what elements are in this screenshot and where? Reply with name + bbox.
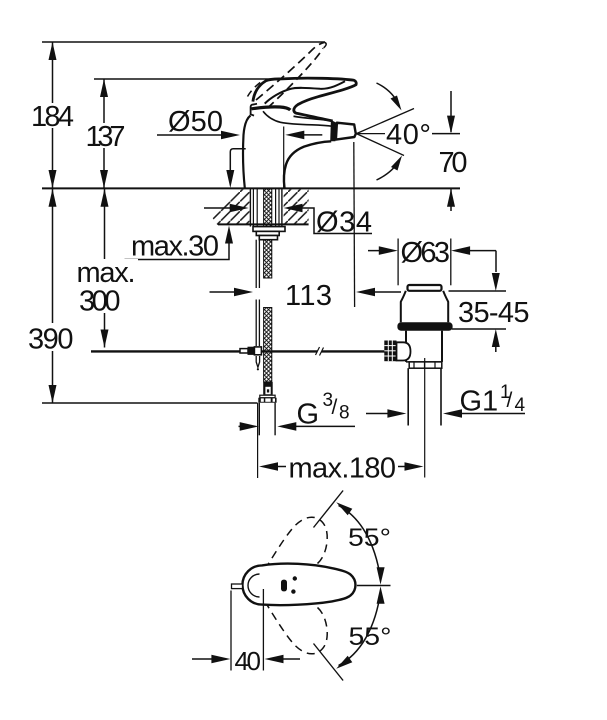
label max. 300 bbox=[72, 259, 138, 313]
knurled knob bbox=[384, 341, 396, 362]
55° lower swing arc bbox=[339, 593, 381, 666]
dashed near pivot bbox=[248, 82, 262, 97]
horizontal pop-up bar bbox=[91, 350, 318, 352]
40 degree rays from aerator bbox=[356, 109, 414, 134]
max.30 leader bbox=[125, 230, 230, 260]
svg-text:Ø63: Ø63 bbox=[401, 237, 451, 269]
Ø63 dimension bbox=[368, 250, 387, 252]
handle front hook bbox=[251, 104, 257, 116]
mounting stack below deck bbox=[253, 227, 285, 232]
label 390 bbox=[25, 323, 77, 351]
35-45 lower arrow bbox=[452, 328, 506, 330]
55° upper ray bbox=[314, 491, 344, 528]
hose nut bbox=[260, 395, 275, 398]
body shoulder line bbox=[263, 111, 333, 126]
dashed raised handle tip bbox=[323, 42, 326, 48]
svg-text:184: 184 bbox=[31, 101, 74, 133]
coupling ring bbox=[409, 362, 442, 368]
tailpipe bbox=[407, 368, 409, 425]
G3/8 tube bbox=[258, 403, 260, 436]
dimension vertical max300 (below deck) bbox=[104, 188, 106, 347]
70 dimension top bbox=[450, 91, 452, 132]
Ø50 right extension line bbox=[283, 127, 285, 189]
aerator extension line down bbox=[353, 142, 356, 307]
Ø50 right arrow bbox=[285, 131, 304, 140]
braided hose upper segment bbox=[264, 189, 272, 278]
Ø50 leader left bbox=[157, 134, 228, 136]
rod clamp bbox=[240, 349, 248, 353]
max.180 dimension bbox=[259, 462, 278, 471]
svg-text:70: 70 bbox=[439, 147, 468, 179]
svg-text:Ø50: Ø50 bbox=[168, 106, 223, 138]
waste cap bbox=[408, 285, 442, 291]
svg-text:Ø34: Ø34 bbox=[316, 207, 372, 239]
hose crimp sleeve bbox=[263, 382, 273, 395]
label Ø63 bbox=[400, 239, 450, 265]
waste center line bbox=[424, 358, 426, 478]
deck hatch right bbox=[284, 189, 309, 225]
handle-body junction thick line bbox=[252, 107, 291, 110]
deck underside line bbox=[218, 223, 309, 225]
knob boss bbox=[397, 342, 411, 360]
113 dimension bbox=[210, 291, 242, 293]
137 reference line bbox=[94, 78, 278, 80]
55° lower ray bbox=[314, 644, 344, 681]
pop-up rod lower bbox=[255, 300, 257, 347]
deck top reference line bbox=[42, 187, 460, 189]
dashed raised handle lower edge bbox=[268, 48, 324, 108]
55° upper swing arc bbox=[339, 506, 381, 579]
top reference line (184) bbox=[42, 41, 325, 43]
svg-text:4: 4 bbox=[515, 395, 526, 416]
svg-text:G1: G1 bbox=[460, 386, 499, 418]
svg-text:/: / bbox=[332, 396, 338, 419]
svg-text:390: 390 bbox=[28, 324, 74, 356]
dashed swung handle lower petal bbox=[257, 588, 328, 654]
handle marks bbox=[293, 576, 297, 580]
svg-text:40°: 40° bbox=[386, 119, 431, 151]
label 137 bbox=[83, 123, 129, 148]
waste gasket bbox=[397, 322, 452, 330]
spout tip dark band bbox=[330, 120, 336, 141]
svg-text:55°: 55° bbox=[349, 623, 392, 651]
svg-text:max.30: max.30 bbox=[131, 231, 219, 263]
svg-text:max.: max. bbox=[77, 257, 136, 289]
svg-text:55°: 55° bbox=[348, 524, 391, 552]
dimension vertical 390 (below deck) bbox=[52, 188, 54, 403]
max180 left extension bbox=[257, 403, 259, 478]
cap inner arc bbox=[248, 574, 260, 597]
handle solid outline bbox=[253, 78, 356, 121]
svg-text:G: G bbox=[297, 399, 320, 431]
G3/8 dimension arrows bbox=[239, 425, 248, 427]
waste body below gasket bbox=[405, 331, 407, 362]
pop-up rod upper bbox=[255, 240, 257, 288]
waste flare skirt bbox=[401, 291, 448, 323]
Ø34 left arrow bbox=[204, 207, 237, 209]
braided hose lower segment bbox=[264, 308, 272, 382]
dimension vertical 137 bbox=[103, 79, 105, 188]
rod below clamp with taper bbox=[256, 356, 259, 367]
pin left bbox=[232, 584, 243, 589]
label 184 bbox=[28, 103, 77, 128]
bar break ticks bbox=[316, 347, 320, 355]
faucet body left edge bbox=[243, 116, 250, 189]
svg-text:/: / bbox=[507, 389, 513, 412]
G1 1/4 dimension bbox=[366, 413, 395, 415]
40 degree swing arc upper bbox=[377, 83, 400, 106]
hook arrow above deck bbox=[230, 149, 245, 170]
svg-text:300: 300 bbox=[79, 286, 121, 318]
dashed swung handle upper petal bbox=[257, 517, 328, 583]
svg-text:35-45: 35-45 bbox=[458, 297, 530, 329]
svg-text:max.180: max.180 bbox=[289, 453, 397, 485]
handle crease bbox=[265, 81, 345, 103]
svg-text:8: 8 bbox=[339, 403, 350, 424]
55° vertex line bbox=[357, 585, 391, 587]
40 degree swing arc lower bbox=[377, 160, 400, 181]
dimension vertical 184 bbox=[52, 42, 54, 188]
handle top view solid bbox=[242, 564, 355, 606]
70 dimension bottom bbox=[450, 189, 452, 211]
spout front-top second line bbox=[294, 116, 333, 121]
waste: Ø63 extension lines bbox=[397, 239, 399, 286]
dashed raised handle upper edge bbox=[256, 42, 325, 100]
shank lines through deck bbox=[249, 188, 251, 226]
390 bottom reference line bbox=[42, 402, 258, 404]
Ø34 right arrow and leader bbox=[284, 204, 303, 213]
aerator bbox=[336, 123, 356, 140]
35-45 upper arrow bbox=[495, 251, 497, 272]
svg-text:40: 40 bbox=[235, 646, 262, 676]
40 dimension bottom view bbox=[230, 591, 232, 671]
faucet body right profile bbox=[284, 141, 331, 188]
svg-text:137: 137 bbox=[86, 121, 126, 153]
deck hatch left bbox=[211, 189, 251, 225]
svg-text:113: 113 bbox=[285, 280, 332, 312]
